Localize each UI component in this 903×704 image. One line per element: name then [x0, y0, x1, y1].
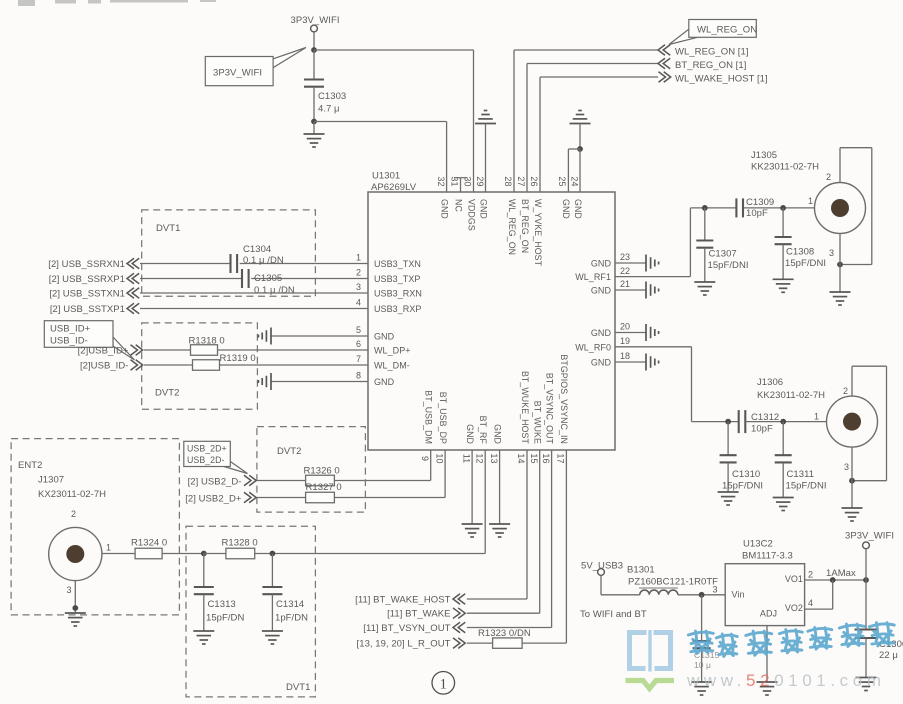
svg-text:NC: NC	[453, 199, 463, 212]
svg-text:[2] USB_SSTXN1: [2] USB_SSTXN1	[49, 288, 125, 299]
svg-text:GND: GND	[591, 358, 612, 368]
svg-text:2: 2	[356, 268, 361, 278]
svg-text:10pF: 10pF	[751, 424, 773, 435]
svg-text:C1313: C1313	[208, 599, 236, 610]
svg-text:R1319 0: R1319 0	[220, 353, 256, 364]
svg-text:0.1 μ /DN: 0.1 μ /DN	[254, 285, 295, 296]
svg-text:16: 16	[541, 453, 551, 463]
svg-text:BT_REG_ON: BT_REG_ON	[520, 199, 530, 253]
svg-text:29: 29	[475, 176, 485, 186]
svg-text:[2] USB2_D-: [2] USB2_D-	[188, 476, 242, 487]
svg-text:USB_2D-: USB_2D-	[187, 455, 225, 465]
svg-text:27: 27	[516, 176, 526, 186]
svg-text:15pF/DNI: 15pF/DNI	[785, 258, 826, 269]
svg-text:DVT2: DVT2	[277, 446, 301, 457]
svg-text:[11] BT_VSYN_OUT: [11] BT_VSYN_OUT	[363, 623, 450, 634]
svg-text:32: 32	[436, 176, 446, 186]
svg-text:BTGPIOS_VSYNC_IN: BTGPIOS_VSYNC_IN	[559, 354, 569, 444]
svg-text:VO1: VO1	[785, 574, 803, 584]
svg-text:5V_USB3: 5V_USB3	[581, 560, 623, 571]
svg-text:GND: GND	[374, 377, 395, 387]
svg-text:C1303: C1303	[318, 91, 346, 102]
svg-text:U1301: U1301	[372, 171, 400, 182]
svg-text:[2]USB_ID-: [2]USB_ID-	[80, 360, 129, 371]
svg-text:R1318 0: R1318 0	[189, 336, 225, 347]
svg-text:BT_USB_DM: BT_USB_DM	[424, 390, 434, 444]
svg-text:26: 26	[529, 176, 539, 186]
svg-text:[2] USB_SSRXN1: [2] USB_SSRXN1	[48, 259, 125, 270]
svg-text:WL_REG_ON: WL_REG_ON	[507, 199, 517, 255]
svg-text:23: 23	[620, 252, 630, 262]
svg-text:R1324 0: R1324 0	[131, 538, 167, 549]
svg-text:2: 2	[71, 509, 76, 519]
svg-text:WL_WAKE_HOST [1]: WL_WAKE_HOST [1]	[675, 73, 768, 84]
svg-text:USB3_TXN: USB3_TXN	[374, 259, 421, 269]
svg-text:BT_REG_ON [1]: BT_REG_ON [1]	[675, 60, 746, 71]
svg-text:Vin: Vin	[732, 589, 745, 599]
svg-text:1pF/DN: 1pF/DN	[275, 613, 308, 624]
svg-text:GND: GND	[591, 286, 612, 296]
svg-text:C1309: C1309	[746, 197, 774, 208]
svg-text:BT_VSYNC_OUT: BT_VSYNC_OUT	[544, 373, 554, 445]
svg-text:20: 20	[620, 322, 630, 332]
svg-text:J1307: J1307	[38, 475, 64, 486]
svg-text:10pF: 10pF	[746, 208, 768, 219]
svg-text:15pF/DNI: 15pF/DNI	[708, 260, 749, 271]
svg-text:19: 19	[620, 336, 630, 346]
svg-text:PZ160BC121-1R0TF: PZ160BC121-1R0TF	[628, 577, 718, 588]
svg-text:USB_2D+: USB_2D+	[187, 443, 227, 453]
svg-text:R1327 0: R1327 0	[306, 482, 342, 493]
svg-text:1: 1	[808, 196, 813, 206]
svg-text:GND: GND	[591, 328, 612, 338]
svg-text:3P3V_WIFI: 3P3V_WIFI	[213, 68, 262, 79]
svg-text:GND: GND	[561, 199, 571, 219]
svg-text:www.520101.com: www.520101.com	[686, 671, 886, 690]
svg-text:WL_REG_ON [1]: WL_REG_ON [1]	[675, 46, 749, 57]
svg-text:BT_RF: BT_RF	[478, 416, 488, 445]
svg-text:15: 15	[529, 453, 539, 463]
svg-text:USB3_TXP: USB3_TXP	[374, 274, 420, 284]
svg-text:VDDGS: VDDGS	[466, 199, 476, 231]
svg-text:15pF/DNI: 15pF/DNI	[722, 481, 763, 492]
svg-text:14: 14	[516, 453, 526, 463]
svg-text:3: 3	[829, 248, 834, 258]
svg-text:GND: GND	[573, 199, 583, 219]
svg-text:2: 2	[843, 386, 848, 396]
svg-text:13: 13	[489, 453, 499, 463]
svg-text:3P3V_WIFI: 3P3V_WIFI	[845, 530, 894, 541]
svg-text:[2] USB_SSRXP1: [2] USB_SSRXP1	[49, 274, 125, 285]
svg-text:R1328 0: R1328 0	[222, 538, 258, 549]
svg-text:18: 18	[620, 351, 630, 361]
svg-text:1: 1	[814, 412, 819, 422]
svg-text:WL_DP+: WL_DP+	[374, 346, 411, 356]
svg-text:[2]USB_ID+: [2]USB_ID+	[78, 345, 129, 356]
svg-text:4.7 μ: 4.7 μ	[318, 104, 340, 115]
svg-text:12: 12	[474, 453, 484, 463]
svg-text:BT_WUKE: BT_WUKE	[533, 401, 543, 444]
svg-text:KX23011-02-7H: KX23011-02-7H	[38, 489, 106, 500]
svg-text:0.1 μ /DN: 0.1 μ /DN	[243, 255, 284, 266]
svg-text:AP6269LV: AP6269LV	[371, 182, 417, 193]
svg-text:GND: GND	[479, 199, 489, 219]
svg-text:W_YVKE_HOST: W_YVKE_HOST	[533, 199, 543, 267]
svg-text:6: 6	[356, 339, 361, 349]
svg-text:3P3V_WIFI: 3P3V_WIFI	[290, 15, 339, 26]
svg-text:VO2: VO2	[785, 603, 803, 613]
svg-text:[11] BT_WAKE: [11] BT_WAKE	[387, 609, 450, 620]
svg-text:DVT2: DVT2	[155, 388, 179, 399]
svg-text:BT_WUKE_HOST: BT_WUKE_HOST	[520, 371, 530, 445]
svg-text:10: 10	[434, 453, 444, 463]
svg-text:GND: GND	[591, 259, 612, 269]
svg-text:2: 2	[826, 172, 831, 182]
svg-text:C1304: C1304	[243, 244, 271, 255]
svg-text:C1312: C1312	[751, 412, 779, 423]
svg-text:8: 8	[356, 371, 361, 381]
svg-text:C1307: C1307	[709, 249, 737, 260]
svg-text:R1323 0/DN: R1323 0/DN	[478, 628, 531, 639]
svg-text:3: 3	[844, 462, 849, 472]
svg-text:1: 1	[356, 253, 361, 263]
svg-text:C1310: C1310	[732, 469, 760, 480]
svg-text:C1308: C1308	[786, 247, 814, 258]
svg-text:[2] USB_SSTXP1: [2] USB_SSTXP1	[50, 304, 125, 315]
svg-text:21: 21	[620, 279, 630, 289]
svg-text:[11] BT_WAKE_HOST: [11] BT_WAKE_HOST	[355, 595, 450, 606]
svg-text:1: 1	[440, 676, 448, 692]
svg-text:USB3_RXP: USB3_RXP	[374, 304, 421, 314]
svg-text:28: 28	[503, 176, 513, 186]
svg-text:BT_USB_DP: BT_USB_DP	[438, 392, 448, 444]
svg-text:9: 9	[420, 456, 430, 461]
svg-text:C1314: C1314	[276, 599, 304, 610]
svg-text:2: 2	[808, 570, 813, 580]
svg-text:C1305: C1305	[254, 273, 282, 284]
svg-text:15pF/DN: 15pF/DN	[206, 613, 244, 624]
svg-text:J1305: J1305	[751, 150, 777, 161]
svg-text:BM1117-3.3: BM1117-3.3	[742, 551, 793, 562]
svg-text:1: 1	[106, 543, 111, 553]
svg-text:WL_DM-: WL_DM-	[374, 361, 410, 371]
svg-text:WL_RF0: WL_RF0	[575, 342, 611, 352]
svg-text:11: 11	[461, 454, 471, 464]
svg-text:5: 5	[356, 325, 361, 335]
svg-text:4: 4	[356, 298, 361, 308]
svg-text:J1306: J1306	[757, 377, 783, 388]
svg-text:25: 25	[557, 176, 567, 186]
svg-text:10 μ: 10 μ	[694, 660, 711, 670]
svg-text:KK23011-02-7H: KK23011-02-7H	[757, 390, 825, 401]
svg-text:DVT1: DVT1	[156, 223, 180, 234]
svg-text:B1301: B1301	[627, 565, 655, 576]
svg-text:GND: GND	[465, 424, 475, 444]
svg-text:3: 3	[712, 585, 717, 595]
svg-text:1AMax: 1AMax	[826, 568, 856, 579]
svg-text:WL_RF1: WL_RF1	[575, 272, 611, 282]
svg-text:USB3_RXN: USB3_RXN	[374, 289, 422, 299]
svg-text:22: 22	[620, 266, 630, 276]
svg-text:ENT2: ENT2	[18, 460, 42, 471]
svg-text:C1311: C1311	[787, 469, 815, 480]
svg-text:DVT1: DVT1	[286, 682, 310, 693]
svg-text:4: 4	[808, 598, 813, 608]
svg-text:7: 7	[356, 354, 361, 364]
svg-text:R1326 0: R1326 0	[304, 466, 340, 477]
svg-text:3: 3	[67, 585, 72, 595]
svg-text:GND: GND	[492, 424, 502, 444]
svg-text:22 μ: 22 μ	[879, 650, 898, 661]
svg-text:WL_REG_ON: WL_REG_ON	[697, 24, 757, 35]
svg-text:[2] USB2_D+: [2] USB2_D+	[185, 493, 242, 504]
svg-text:GND: GND	[374, 332, 395, 342]
svg-text:ADJ: ADJ	[760, 609, 777, 619]
svg-text:3: 3	[356, 282, 361, 292]
svg-text:24: 24	[570, 176, 580, 186]
svg-text:To WIFI and BT: To WIFI and BT	[580, 609, 647, 620]
svg-text:KK23011-02-7H: KK23011-02-7H	[751, 162, 819, 173]
svg-text:U13C2: U13C2	[743, 539, 773, 550]
svg-text:15pF/DNI: 15pF/DNI	[786, 481, 827, 492]
svg-text:GND: GND	[439, 199, 449, 219]
svg-text:USB_ID+: USB_ID+	[50, 324, 91, 335]
svg-text:[13, 19, 20] L_R_OUT: [13, 19, 20] L_R_OUT	[357, 639, 451, 650]
svg-text:17: 17	[556, 453, 566, 463]
